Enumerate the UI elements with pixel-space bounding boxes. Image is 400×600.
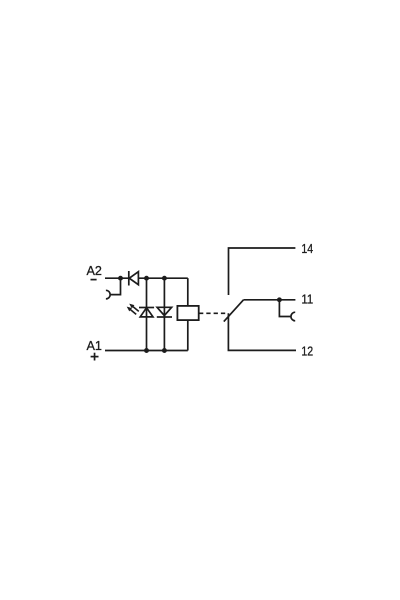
wire down to relay coil <box>187 278 189 306</box>
wire contact 14 with corner <box>229 248 296 295</box>
socket contact at 11 (plug-in clamp) <box>279 300 295 321</box>
freewheeling diode D2 <box>157 307 172 317</box>
node junction A1 rail / diode branch <box>162 348 167 353</box>
node junction on A2 rail at socket branch <box>118 276 123 281</box>
node junction A2 rail / diode branch <box>162 276 167 281</box>
relay coil K1 <box>177 306 198 320</box>
wire A2 rail <box>138 277 187 279</box>
socket contact at A2 (plug-in clamp) <box>106 278 121 299</box>
wire contact 12 with corner <box>228 313 296 350</box>
LED emission arrow lower <box>127 307 137 315</box>
wire coil to A1 rail <box>187 320 189 350</box>
svg-text:A1: A1 <box>87 339 102 353</box>
svg-text:14: 14 <box>301 242 313 256</box>
diode D1 reverse-polarity protection <box>129 271 139 286</box>
wire freewheeling diode branch <box>163 278 165 350</box>
wire LED branch <box>146 278 148 350</box>
wire A2 terminal stub <box>105 277 129 279</box>
node junction on 11 wire <box>277 297 282 302</box>
svg-text:11: 11 <box>301 293 313 307</box>
minus polarity mark at A2 <box>91 279 97 281</box>
node junction A1 rail / LED branch <box>144 348 149 353</box>
dashed mechanical link coil to contact <box>199 312 226 314</box>
node junction A2 rail / LED branch <box>144 276 149 281</box>
svg-text:12: 12 <box>301 345 313 359</box>
LED emission arrow upper <box>129 304 139 312</box>
plus polarity mark at A1 <box>91 353 99 361</box>
svg-text:A2: A2 <box>87 264 102 278</box>
wire contact 11 common <box>244 299 296 301</box>
LED indicator lamp <box>139 308 154 317</box>
wire A1 rail <box>105 350 188 352</box>
contact arm (changeover moving contact) <box>224 300 244 322</box>
